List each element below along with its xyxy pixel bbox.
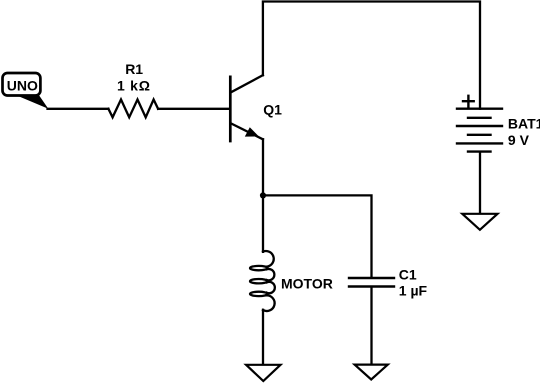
svg-text:UNO: UNO <box>7 78 38 94</box>
svg-text:MOTOR: MOTOR <box>281 276 333 292</box>
svg-text:C1: C1 <box>399 267 417 283</box>
svg-text:1 µF: 1 µF <box>399 283 428 299</box>
svg-text:R1: R1 <box>125 61 143 77</box>
svg-text:9 V: 9 V <box>508 132 530 148</box>
svg-text:1 kΩ: 1 kΩ <box>117 78 151 94</box>
svg-text:BAT1: BAT1 <box>508 116 540 132</box>
svg-text:Q1: Q1 <box>263 101 282 117</box>
